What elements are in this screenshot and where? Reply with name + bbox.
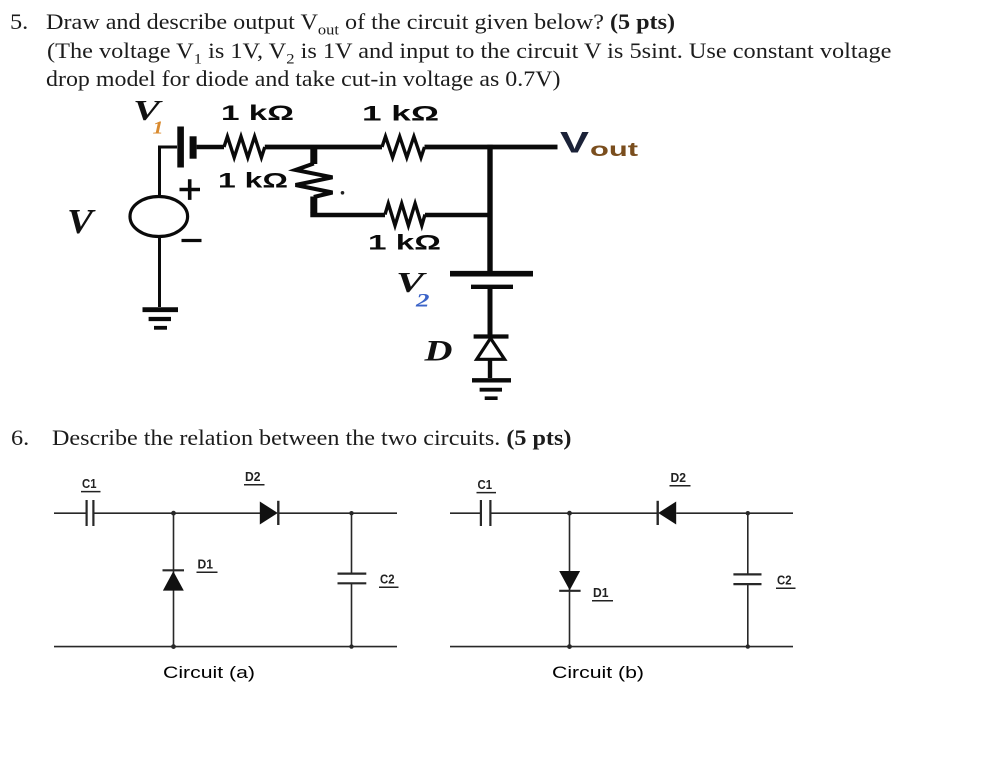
wire top mid segment b bbox=[491, 512, 657, 514]
wire R3 to node line bbox=[425, 213, 491, 218]
resistor R3 1k zigzag bbox=[385, 204, 425, 226]
svg-text:D2: D2 bbox=[671, 470, 687, 485]
ground left line 2 bbox=[149, 317, 171, 321]
ground right line 3 bbox=[485, 396, 498, 400]
wire battery to R1 bbox=[197, 145, 224, 150]
svg-text:C1: C1 bbox=[478, 477, 493, 492]
wire vertical branch a bbox=[173, 513, 175, 646]
source ellipse bbox=[130, 197, 188, 237]
svg-text:D1: D1 bbox=[593, 585, 609, 600]
capacitor C2b plate top bbox=[733, 573, 761, 575]
node b bottom right bbox=[746, 644, 750, 648]
minus sign bbox=[182, 239, 202, 242]
wire source to ground bbox=[158, 237, 161, 308]
question 5 text line 3 bbox=[46, 68, 560, 90]
diode D2a triangle bbox=[260, 502, 278, 525]
question 5 text line 2 bbox=[47, 40, 891, 62]
svg-text:1 kΩ: 1 kΩ bbox=[368, 232, 441, 255]
diode D1a triangle bbox=[163, 571, 184, 590]
capacitor C2a plate bottom bbox=[338, 582, 367, 584]
battery V2 plate short bbox=[471, 285, 513, 289]
label D2 b bbox=[670, 470, 691, 486]
wire top right segment a bbox=[278, 512, 397, 514]
svg-text:C2: C2 bbox=[380, 572, 395, 587]
ground left line 3 bbox=[154, 326, 167, 330]
svg-text:D: D bbox=[423, 335, 452, 368]
battery V1 plate long bbox=[177, 127, 184, 168]
resistor R1 1k zigzag bbox=[224, 137, 265, 158]
resistor R2 1k zigzag bbox=[382, 137, 425, 158]
question 6 text bbox=[11, 427, 29, 449]
svg-text:Circuit (a): Circuit (a) bbox=[163, 663, 255, 682]
wire C2a upper stub bbox=[351, 513, 353, 573]
label V2 bbox=[396, 268, 430, 312]
svg-text:Circuit (b): Circuit (b) bbox=[552, 663, 644, 682]
wire R2 to Vout bbox=[425, 145, 558, 150]
svg-text:V: V bbox=[560, 127, 589, 160]
label D1 b bbox=[592, 585, 613, 601]
wire lower branch to R3 bbox=[310, 213, 385, 218]
wire top mid segment a bbox=[94, 512, 260, 514]
wire C2b upper stub bbox=[747, 513, 749, 574]
diode D1b cathode bar bbox=[559, 590, 580, 592]
wire C2b lower stub bbox=[747, 585, 749, 647]
wire top right segment b bbox=[676, 512, 793, 514]
node a right top bbox=[349, 511, 353, 515]
capacitor C1a plate left bbox=[85, 500, 87, 526]
wire C2a lower stub bbox=[351, 584, 353, 647]
svg-text:1 kΩ: 1 kΩ bbox=[221, 102, 294, 125]
resistor Rv vertical 1k zigzag bbox=[296, 164, 333, 198]
wire battery V2 to diode bbox=[488, 289, 493, 335]
capacitor C1a plate right bbox=[92, 500, 94, 526]
stray dot mark bbox=[341, 191, 345, 195]
wire top left segment a bbox=[54, 512, 86, 514]
label C1 a bbox=[81, 476, 101, 492]
wire stub below vertical resistor bbox=[310, 197, 317, 214]
wire top left segment b bbox=[450, 512, 480, 514]
wire bottom b bbox=[450, 646, 793, 648]
wire bottom a bbox=[54, 646, 397, 648]
wire output node vertical bbox=[487, 145, 492, 271]
battery V1 plate short bbox=[190, 136, 197, 158]
diode D cathode bar bbox=[474, 334, 509, 338]
capacitor C2a plate top bbox=[338, 572, 367, 574]
label Vout bbox=[560, 127, 639, 162]
label C1 b bbox=[477, 477, 497, 493]
svg-text:V: V bbox=[67, 202, 96, 241]
ground left line 1 bbox=[143, 307, 179, 312]
node dot a top bbox=[171, 511, 176, 516]
diode D2a cathode bar bbox=[277, 501, 279, 525]
svg-text:2: 2 bbox=[415, 291, 431, 312]
wire diode to ground bbox=[488, 359, 492, 378]
question 5 text line 1 bbox=[10, 11, 28, 33]
svg-text:1: 1 bbox=[153, 118, 164, 138]
diode D1a cathode bar bbox=[163, 569, 185, 571]
node b bottom left bbox=[567, 644, 572, 649]
wire stub node to vertical resistor bbox=[310, 147, 317, 164]
svg-text:C1: C1 bbox=[82, 476, 97, 491]
battery V2 plate long bbox=[450, 271, 533, 277]
label C2 a bbox=[379, 572, 399, 588]
capacitor C1b plate right bbox=[489, 500, 491, 526]
diode D2b cathode bar bbox=[657, 501, 659, 525]
svg-text:D2: D2 bbox=[245, 469, 261, 484]
node a bottom right bbox=[349, 644, 353, 648]
node a bottom left bbox=[171, 644, 176, 649]
svg-text:D1: D1 bbox=[198, 557, 214, 572]
node dot b top bbox=[567, 511, 572, 516]
wire R1 to R2 through node bbox=[265, 145, 382, 150]
ground right line 1 bbox=[472, 378, 511, 382]
svg-text:C2: C2 bbox=[777, 573, 792, 588]
svg-text:1 kΩ: 1 kΩ bbox=[362, 103, 439, 126]
capacitor C1b plate left bbox=[480, 500, 482, 526]
svg-text:1 kΩ: 1 kΩ bbox=[218, 170, 288, 193]
ground right line 2 bbox=[480, 388, 502, 392]
label D2 a bbox=[244, 469, 265, 485]
wire source-top jog to battery bbox=[160, 147, 178, 197]
plus sign bbox=[180, 179, 201, 200]
diode D1b triangle bbox=[559, 571, 580, 590]
wire vertical branch b bbox=[569, 513, 571, 646]
diode D triangle bbox=[477, 338, 505, 359]
label V1 bbox=[133, 96, 164, 138]
svg-text:out: out bbox=[590, 140, 639, 161]
diode D2b triangle bbox=[658, 502, 676, 525]
node b right top bbox=[746, 511, 750, 515]
label D1 a bbox=[197, 557, 218, 573]
label C2 b bbox=[776, 573, 796, 589]
capacitor C2b plate bottom bbox=[733, 583, 761, 585]
